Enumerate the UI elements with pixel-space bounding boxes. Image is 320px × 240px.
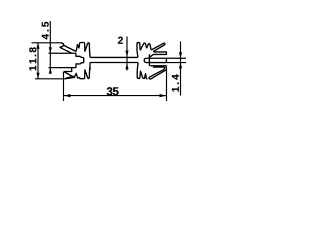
dim 1.4 top extension line [166, 57, 186, 59]
left cluster: sigma fin lower edge [66, 76, 74, 78]
left cluster: top zigzag fins [76, 42, 90, 57]
label 35 [107, 87, 119, 95]
right cluster: up finger F1 [137, 43, 140, 58]
bar bottom line [90, 62, 138, 64]
label 11.8 [29, 47, 36, 70]
arrows 35 [64, 94, 71, 97]
dim 2 dimension line [126, 37, 128, 71]
right cluster: diagonal finger F2 [140, 43, 147, 50]
right cluster: lower-right horizontal fin [150, 66, 166, 70]
left cluster: upper diagonals from hook [64, 45, 76, 51]
right cluster: bottom fingers [137, 63, 147, 79]
dim 4.5 top extension line / body top edge [49, 52, 77, 54]
dim 1.4 dimension line [180, 42, 182, 96]
right cluster: long diagonal fin F3 [151, 43, 165, 52]
dim 11.8 dimension line [37, 43, 39, 79]
dim 1.4 bottom extension line [166, 62, 186, 64]
label 2 [118, 37, 123, 44]
right cluster: central fin with bullet cap [144, 58, 166, 62]
arrows 2 [125, 51, 128, 57]
bar top line [90, 56, 138, 58]
left cluster: bottom-left sigma fold fin [64, 72, 74, 79]
dim 4.5 bottom extension line / body bottom edge [49, 67, 77, 69]
dim 35 left extension line [63, 72, 65, 101]
dim 11.8 top extension line / profile top edge [32, 42, 63, 44]
arrows 11.8 [36, 43, 39, 49]
right cluster: eta finger [147, 44, 151, 49]
dim 35 right extension line [166, 68, 168, 102]
left cluster: bottom zigzag fins [74, 67, 90, 79]
label 1.4 [172, 74, 179, 91]
arrows 1.4 [179, 52, 182, 58]
dim 4.5 dimension line [49, 21, 51, 74]
label 4.5 [42, 22, 49, 39]
left cluster: top-left hook fin [60, 43, 64, 47]
right cluster: lower diagonal strip fin [149, 69, 166, 79]
bar left bottom junction [89, 63, 91, 71]
dim 11.8 bottom extension line [35, 78, 65, 80]
right cluster: hub trunk [148, 54, 150, 66]
dim 35 dimension line [64, 95, 167, 97]
left cluster: body bullet tip [76, 53, 84, 67]
arrows 4.5 [49, 47, 52, 53]
right cluster: upper-right horizontal fin [149, 52, 167, 58]
left cluster: bottom step [64, 68, 72, 72]
